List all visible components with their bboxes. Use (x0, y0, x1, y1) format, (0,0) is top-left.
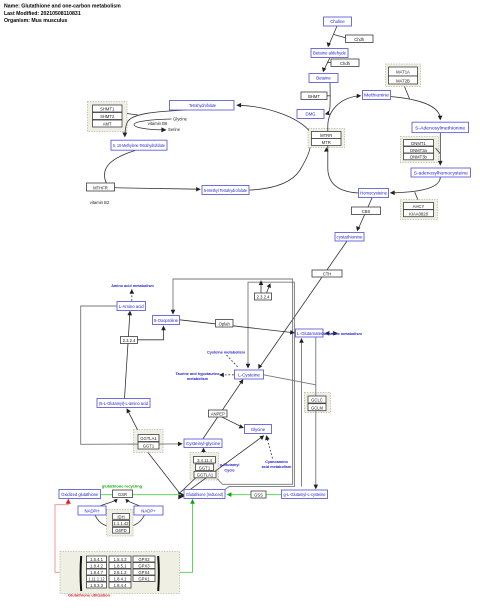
svg-text:1.8.5.1: 1.8.5.1 (114, 563, 127, 568)
svg-text:glutathione recycling: glutathione recycling (102, 484, 143, 489)
svg-text:GPX4: GPX4 (138, 570, 150, 575)
svg-text:metabolism: metabolism (187, 377, 209, 381)
gene 1.1.1.42 (113, 520, 130, 526)
svg-text:cystathionine: cystathionine (337, 235, 364, 240)
gene ANPEP (209, 410, 228, 417)
svg-text:5-Methyl Tetrahydrofolate: 5-Methyl Tetrahydrofolate (204, 188, 248, 193)
svg-text:SHMT1: SHMT1 (100, 107, 115, 112)
svg-text:vitamin B6: vitamin B6 (148, 121, 168, 126)
svg-text:L-Amino acid: L-Amino acid (119, 304, 145, 309)
svg-text:CBS: CBS (362, 209, 371, 214)
svg-text:CTH: CTH (323, 272, 332, 277)
node gamma-Glu-amino-acid (97, 399, 150, 408)
node NADPH (78, 506, 106, 515)
gene AMT (93, 120, 123, 127)
svg-text:DNMT3a: DNMT3a (410, 148, 427, 153)
group glutathione utilization (60, 552, 180, 594)
gene SHMT2 (93, 113, 123, 120)
svg-text:GGTLA1: GGTLA1 (140, 436, 157, 441)
node cystathionine (335, 233, 364, 242)
gene MTHFR (87, 183, 115, 191)
group NADPH-regeneration (107, 510, 134, 537)
edge Glycine->Serine small arc (134, 119, 172, 130)
svg-text:DNMT1: DNMT1 (411, 141, 426, 146)
gene BHMT (301, 92, 327, 100)
tick BHMT (327, 95, 330, 97)
svg-text:5-Oxoproline: 5-Oxoproline (154, 318, 179, 323)
svg-text:AMT: AMT (103, 122, 112, 127)
green edge utilization->GSH (180, 501, 193, 573)
utilization table column 1 (87, 556, 107, 588)
group DNMT (401, 137, 439, 163)
dashed cysteine-metabolism link (227, 355, 239, 368)
edge cystathionine->L-Cysteine (260, 241, 347, 367)
svg-text:MTR: MTR (322, 140, 331, 145)
edge 5-Oxoproline->L-Glutamate (Oplah) (180, 320, 293, 333)
svg-text:Glutathione utilization: Glutathione utilization (68, 593, 111, 598)
svg-text:Name: Glutathione and one-carb: Name: Glutathione and one-carbon metabol… (4, 4, 121, 10)
gene Chdh 1 (346, 35, 374, 43)
gene 3.4.11.4 (194, 457, 216, 464)
svg-text:AHCY: AHCY (413, 204, 425, 209)
node Oxidized glutathione (59, 490, 101, 499)
tick SHMT-group (127, 114, 138, 116)
tick Chdh1 (334, 35, 346, 38)
gene Chdh 2 (331, 59, 359, 67)
edge SAH->Homocysteine (393, 177, 440, 193)
node Betaine (309, 74, 338, 83)
svg-text:KIAA0828: KIAA0828 (409, 211, 429, 216)
svg-text:MAT2B: MAT2B (396, 78, 410, 83)
svg-text:Cysteinyl-glycine: Cysteinyl-glycine (186, 441, 221, 446)
svg-text:Serine: Serine (168, 127, 181, 132)
utilization table column 3 (133, 556, 155, 582)
node Glutathione (reduced) (184, 490, 225, 499)
edge MTR-group->Tetrahydrofolate (239, 105, 309, 130)
svg-text:2.8.1.3: 2.8.1.3 (114, 570, 127, 575)
edge enzymes-group->Glutathione (180, 478, 195, 493)
edge L-Cysteine->join GCL (264, 375, 316, 385)
edge Betaine aldehyde->Betaine (324, 58, 330, 71)
gene GSR (113, 490, 133, 498)
node Cysteinyl-glycine (184, 439, 222, 448)
svg-text:Chdh: Chdh (340, 61, 351, 66)
svg-text:Chdh: Chdh (354, 37, 365, 42)
node 5,10-Methylene-THF (111, 140, 167, 150)
edge ANPEP->Glycine (222, 417, 242, 427)
gene SHMT1 (93, 105, 123, 112)
svg-text:3.4.11.4: 3.4.11.4 (197, 458, 212, 463)
svg-text:S-adenosylhomocysteine: S-adenosylhomocysteine (414, 170, 469, 175)
node S-adenosylhomocysteine (411, 168, 471, 177)
svg-text:GSS: GSS (254, 493, 263, 498)
svg-text:GGT1: GGT1 (199, 465, 211, 470)
arrowhead into MTR group bottom (324, 147, 329, 151)
gene GGTLA1 left (138, 435, 159, 442)
node L-Amino acid (117, 302, 146, 311)
node DMG (297, 110, 324, 119)
utilization table column 2 (109, 556, 131, 588)
svg-text:GPX1: GPX1 (138, 576, 150, 581)
dashed taurine link (221, 374, 234, 376)
edge Choline->Betaine aldehyde (329, 26, 337, 46)
utilization bracket left (80, 556, 83, 591)
svg-text:MTRR: MTRR (320, 133, 332, 138)
svg-text:5, 10-Methylene Tetrahydrofola: 5, 10-Methylene Tetrahydrofolate (113, 143, 165, 148)
svg-text:Glycine: Glycine (251, 427, 266, 432)
edge Tetrahydrofolate->5,10-Methylene-THF (125, 110, 186, 135)
gene CBS (352, 207, 381, 215)
gene KIAA0828 (404, 210, 434, 217)
arrowhead into Glutathione left (178, 492, 186, 500)
svg-text:L-Glutamate: L-Glutamate (297, 331, 322, 336)
svg-text:1.5.4.1: 1.5.4.1 (90, 557, 103, 562)
svg-text:Cyanoamino: Cyanoamino (265, 460, 288, 464)
svg-text:NADPH: NADPH (84, 508, 99, 513)
svg-text:Amino acid metabolism: Amino acid metabolism (111, 284, 154, 288)
tick AHCY-group (415, 192, 418, 199)
group MAT (386, 64, 421, 87)
node Tetrahydrofolate (170, 101, 235, 111)
svg-text:1.8.4.4: 1.8.4.4 (114, 583, 127, 588)
wire B glutathione-loop->L-Cysteine (225, 282, 294, 489)
group SHMT (88, 102, 128, 132)
dashed amino-acid-metabolism link (131, 291, 133, 301)
gene 2.3.2.4 right (255, 293, 272, 300)
node Glycine (245, 425, 272, 434)
svg-text:1.8.3.3: 1.8.3.3 (90, 583, 103, 588)
green edge gGluCys->GSH (GSS) (229, 494, 282, 496)
svg-text:Last Modified: 20210508110831: Last Modified: 20210508110831 (4, 11, 81, 17)
svg-text:Cysteine metabolism: Cysteine metabolism (207, 351, 246, 355)
edge SAM->SAH (439, 133, 441, 164)
svg-text:Organism: Mus musculus: Organism: Mus musculus (4, 18, 68, 24)
edge GGT-left-group->Glutathione (148, 453, 180, 494)
svg-text:GCLC: GCLC (311, 398, 323, 403)
edge gamma-Glu-aa->L-Amino-acid (125, 313, 130, 399)
svg-text:Oxidized glutathione: Oxidized glutathione (61, 492, 99, 497)
node L-Cysteine (235, 370, 264, 379)
svg-text:BHMT: BHMT (308, 94, 320, 99)
gene DNMT3b (404, 153, 434, 160)
anchor 2.3.2.4-right a (260, 282, 262, 293)
node Homocysteine (359, 189, 389, 198)
svg-text:g-L-Glutamyl-L-cysteine: g-L-Glutamyl-L-cysteine (284, 492, 327, 497)
svg-text:L-Cysteine: L-Cysteine (238, 372, 261, 377)
svg-text:Glutamate metabolism: Glutamate metabolism (321, 332, 362, 336)
svg-text:2.3.2.4: 2.3.2.4 (257, 295, 270, 300)
wire NADPH->NADP+ lower arc (95, 515, 145, 528)
group gamma-glutamyl-cycle enzymes (190, 453, 219, 481)
red edge utilization->GSSG (55, 501, 68, 573)
svg-text:1.1.1.42: 1.1.1.42 (113, 521, 129, 526)
svg-text:Betaine: Betaine (316, 76, 331, 81)
wire 2.3.2.4->5-Oxoproline (138, 328, 164, 340)
svg-text:GGTLA1: GGTLA1 (197, 473, 214, 478)
node S-Adenosylmethionine (412, 122, 469, 132)
svg-text:MTHFR: MTHFR (93, 185, 108, 190)
svg-text:Glutathione (reduced): Glutathione (reduced) (186, 492, 224, 497)
edge Homocysteine->cystathionine (358, 198, 372, 229)
svg-text:Choline: Choline (330, 19, 345, 24)
svg-text:Oplah: Oplah (219, 322, 231, 327)
svg-text:1.11.1.12: 1.11.1.12 (89, 576, 106, 581)
gene GGT1 left (138, 442, 159, 449)
svg-text:S-Adenosylmethionine: S-Adenosylmethionine (415, 125, 466, 130)
svg-text:G6PD: G6PD (115, 528, 126, 533)
node g-L-Glutamyl-L-cysteine (282, 490, 328, 499)
svg-text:1.8.4.7: 1.8.4.7 (90, 570, 103, 575)
svg-text:MAT1A: MAT1A (396, 70, 410, 75)
node NADP+ (134, 506, 163, 515)
gene GCLM (308, 404, 326, 411)
gene GCLC (308, 396, 326, 403)
svg-text:ANPEP: ANPEP (211, 412, 225, 417)
edge NADP+->GSR arc (126, 500, 140, 506)
edge Homocysteine->Methionine (328, 96, 359, 193)
anchor 2.3.2.4-right b (267, 285, 270, 293)
svg-text:GCLM: GCLM (311, 405, 324, 410)
svg-text:Taurine and hypotaurine: Taurine and hypotaurine (175, 372, 219, 376)
wire L-Amino-acid->Cysteinyl-glycine (around left) (81, 306, 181, 444)
gene MAT2B (389, 76, 418, 84)
gene GSS (251, 491, 266, 498)
node L-Glutamate (296, 329, 324, 337)
wire up into L-Glutamate (301, 340, 303, 486)
svg-text:1.8.4.2: 1.8.4.2 (90, 563, 103, 568)
svg-text:Methionine: Methionine (364, 93, 390, 98)
edge 5,10-Methylene-THF->5-Methyl-THF (105, 151, 199, 190)
group MTR (308, 129, 345, 148)
gene IDH (113, 514, 130, 520)
edge Betaine->DMG (327, 83, 331, 114)
svg-text:1.8.4.1: 1.8.4.1 (114, 576, 127, 581)
wire A glutathione-loop->5-Oxoproline (173, 279, 293, 484)
group GGT-left (134, 430, 164, 453)
svg-text:vitamin B2: vitamin B2 (90, 200, 110, 205)
svg-text:Tetrahydrofolate: Tetrahydrofolate (189, 103, 217, 108)
svg-text:DNMT3b: DNMT3b (410, 155, 427, 160)
edge NADPH->GSR arc (100, 500, 116, 506)
svg-text:2.3.2.4: 2.3.2.4 (123, 338, 136, 343)
gene DNMT3a (404, 147, 434, 154)
node Choline (324, 17, 352, 26)
node Betaine aldehyde (311, 49, 348, 58)
edge Glutathione->Glycine (191, 437, 263, 490)
gene G6PD (113, 527, 130, 533)
gene GGTLA1 center (194, 471, 216, 478)
svg-text:g-Glutamyl: g-Glutamyl (220, 463, 240, 467)
node 5-Methyl-THF (202, 186, 249, 195)
tick DNMT-group (436, 148, 441, 154)
edge Methionine->S-Adenosylmethionine (391, 97, 441, 117)
gene DNMT1 (404, 140, 434, 147)
dashed glutamate-metabolism link (328, 332, 336, 334)
dashed cyanoamino link (267, 437, 273, 458)
gene CTH (312, 270, 342, 277)
wire L-Glutamate->g-L-Glutamyl-L-cysteine (315, 338, 317, 488)
edge enzymes-group->Cysteinyl-glycine (203, 449, 205, 452)
tick MAT-group (405, 87, 410, 100)
gene MTR (312, 139, 342, 146)
svg-text:Cycle: Cycle (224, 469, 234, 473)
svg-text:IDH: IDH (117, 514, 124, 519)
svg-text:DMG: DMG (305, 112, 316, 117)
edge 5-Methyl-THF->MTR-group (250, 148, 311, 191)
svg-text:SHMT2: SHMT2 (100, 114, 115, 119)
green edge GSSG->GSH (GSR) (101, 494, 182, 496)
edge Cysteinyl-glycine->L-Cysteine (ANPEP) (203, 381, 242, 439)
svg-text:Betaine aldehyde: Betaine aldehyde (313, 51, 347, 56)
gene MTRR (312, 132, 342, 139)
group GCL (305, 393, 331, 413)
svg-text:Glycine: Glycine (173, 116, 188, 121)
tick Chdh2 (327, 61, 331, 63)
svg-text:GSR: GSR (118, 492, 127, 497)
svg-text:NADP+: NADP+ (141, 508, 156, 513)
gene 2.3.2.4 left (121, 337, 138, 344)
svg-text:1.8.4.3: 1.8.4.3 (114, 557, 127, 562)
node Methionine (363, 91, 391, 100)
gene Oplah (216, 320, 234, 328)
utilization bracket right (157, 556, 160, 591)
gene AHCY (404, 203, 434, 210)
svg-text:GPX2: GPX2 (138, 557, 150, 562)
svg-text:(5-L-Glutamyl)-L-amino acid: (5-L-Glutamyl)-L-amino acid (99, 401, 149, 406)
group AHCY (401, 200, 438, 220)
edge GGT-group->gamma-Glu-aa (128, 410, 138, 430)
svg-text:acid metabolism: acid metabolism (262, 465, 292, 469)
node 5-Oxoproline (153, 316, 180, 325)
gene MAT1A (389, 67, 418, 76)
svg-text:Homocysteine: Homocysteine (360, 191, 388, 196)
svg-text:GGT1: GGT1 (143, 444, 155, 449)
svg-text:GPX3: GPX3 (138, 563, 150, 568)
gene GGT1 center (196, 464, 214, 471)
